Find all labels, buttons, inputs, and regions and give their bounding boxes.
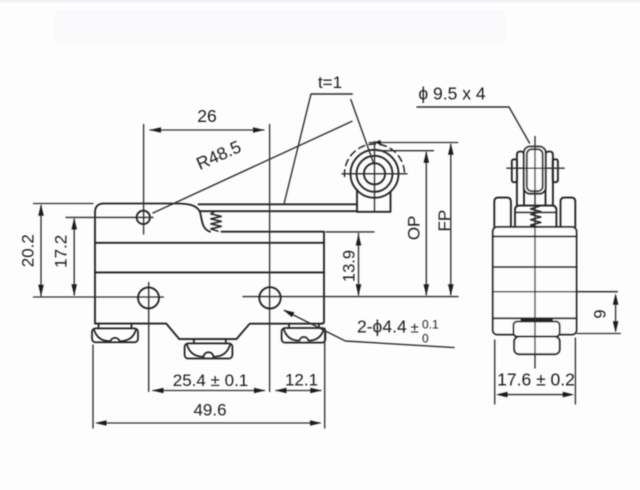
svg-text:±: ± [411,320,419,337]
terminal screw right (side view) [289,324,319,328]
roller outer (front) [524,147,546,194]
plunger bracket (front) [515,206,556,227]
svg-text:26: 26 [197,106,216,126]
arrowheads FP [448,143,454,155]
axle tab right [553,159,558,182]
body horizontal line lower [95,271,324,273]
svg-text:ϕ 9.5 x 4: ϕ 9.5 x 4 [418,84,485,104]
svg-text:20.2: 20.2 [19,234,38,267]
top edge extension line (20.2) [34,203,94,205]
extension line right for 49.6 / 12.1 [324,328,326,428]
arrowheads OP [424,151,430,163]
front roller axle crosshair [507,167,564,169]
front view vertical centerline [534,137,536,369]
arrowheads dim 26 [150,127,162,133]
plunger spring (front) [531,206,541,227]
dim 13.9 line [358,234,360,296]
svg-text:2-ϕ4.4: 2-ϕ4.4 [357,317,407,337]
switch body (side view) outline [104,204,210,232]
arrowheads dim 13.9 [356,234,362,246]
left ear [494,198,511,227]
roller centerline cross (side view) [342,173,407,175]
ext lines 17.6 [495,338,576,404]
right mounting hole [259,287,280,308]
svg-text:0.1: 0.1 [422,318,439,332]
svg-text:9: 9 [592,309,610,318]
fork prong right (front) [546,152,553,206]
FP extension line [369,142,457,144]
arrowheads dim 20.2 [38,204,44,216]
svg-text:13.9: 13.9 [341,250,359,282]
dim 12.1 line [276,390,321,392]
roller free-position dashed arc [345,144,405,176]
axle tab left [512,159,517,182]
leader 2-dia4.4 [285,311,455,348]
OP dimension line [425,153,427,295]
arrowheads dim 17.2 [71,218,77,230]
left mounting hole centerline horizontal [34,296,164,298]
dim 25.4 line [153,390,265,392]
arrowheads dim 17.6 [496,392,508,398]
dim 49.6 line [97,422,320,424]
terminal screw left (side view) [99,324,132,329]
dim 17.6 line [499,394,571,396]
OP extension line [378,150,434,152]
arrowheads dim 49.6 [95,420,107,426]
R48.5 radius line [153,121,352,213]
pivot centerline horizontal [66,216,153,218]
svg-text:25.4 ± 0.1: 25.4 ± 0.1 [173,371,249,390]
dim 9 line [615,297,617,331]
roller middle circle [357,156,393,192]
plunger spring (side view) [211,212,222,232]
svg-text:49.6: 49.6 [193,401,226,420]
dim 9 top reference [577,333,620,335]
dim 20.2 line [40,206,42,296]
right mounting hole centerline / OP FP base line [243,296,458,298]
arrowheads dim 25.4 [152,388,164,394]
front body band line [493,235,577,237]
front body middle line [493,266,577,268]
dim 17.2 line [73,219,75,295]
arrowhead leader 2-dia4.4 [283,310,294,317]
arrowheads dim 12.1 [275,388,287,394]
right mounting hole long vertical extension line [269,125,271,392]
svg-text:12.1: 12.1 [285,371,318,390]
svg-text:FP: FP [435,210,454,232]
front body line at mounting level [493,291,618,293]
pivot / dim-26 vertical extension line [143,125,145,235]
roller outer circle [351,150,399,198]
right ear [561,198,576,227]
svg-text:OP: OP [405,216,424,241]
pivot rivet circle [137,211,150,224]
svg-text:t=1: t=1 [318,73,342,92]
FP dimension line [450,145,452,295]
body horizontal line upper [95,242,324,244]
lever strip bottom edge [200,210,357,212]
dim 26 line [150,129,264,131]
arrowhead FP tick [374,140,381,145]
leader of dia 9.5 x 4 [417,107,530,143]
extension line left for 49.6 [92,345,94,428]
terminal screw center (side view) [194,339,226,343]
arrowheads dim 9 [613,293,619,305]
roller bracket (side view) [357,190,391,212]
left mounting hole vertical extension line [148,283,150,392]
front body outline [493,227,577,335]
svg-text:17.6 ± 0.2: 17.6 ± 0.2 [497,370,575,390]
svg-text:0: 0 [422,332,429,346]
terminal screw block upper (front) [513,321,559,336]
roller inner wall (front) [527,149,543,191]
roller axle circle [364,163,385,184]
fork prong left (front) [517,152,524,206]
front body lower line [493,317,577,319]
terminal screw block lower (front) [514,337,560,355]
left mounting hole [138,287,159,308]
svg-text:17.2: 17.2 [52,235,71,268]
dim 13.9 extension [326,231,374,233]
terminal neck (front) [521,318,552,321]
t=1 underline and leaders [284,94,374,204]
lever strip top edge [199,203,358,205]
